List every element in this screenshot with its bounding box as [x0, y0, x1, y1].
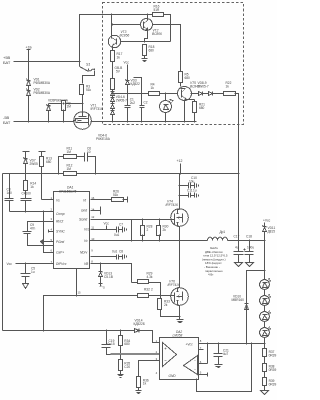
pin1 stub — [153, 342, 160, 344]
wire drain up to SW node — [179, 241, 181, 288]
ground below R18 — [144, 56, 146, 59]
svg-text:100: 100 — [26, 192, 32, 196]
resistor R3 — [80, 85, 84, 95]
svg-text:1k: 1k — [30, 185, 34, 189]
diode stack VD4-6 — [112, 90, 114, 92]
R11 + C6 branch — [59, 157, 64, 174]
wire VT2 emitter to R18 — [145, 30, 148, 42]
LED HL5 — [264, 322, 266, 328]
svg-text:Vcc: Vcc — [84, 228, 90, 232]
capacitor C6 — [85, 153, 88, 162]
resistor R35 — [120, 355, 122, 360]
svg-text:C2: C2 — [144, 101, 148, 105]
svg-text:Gnd: Gnd — [81, 209, 87, 213]
svg-text:1M: 1M — [67, 150, 72, 154]
svg-text:51k: 51k — [86, 88, 92, 92]
wire -5V battery rail — [14, 121, 197, 123]
pin4 stub — [49, 230, 54, 233]
svg-text:10: 10 — [87, 150, 91, 154]
resistor R16 — [153, 13, 164, 17]
resistor R13 — [41, 152, 43, 157]
capacitor C18 — [249, 240, 251, 242]
svg-text:MBR160: MBR160 — [232, 298, 245, 302]
svg-text:0u1: 0u1 — [114, 233, 120, 237]
ground under VT5 source — [177, 320, 184, 323]
svg-text:4u: 4u — [235, 245, 239, 249]
svg-text:1u0: 1u0 — [7, 191, 13, 195]
wire R16 to base rail — [164, 15, 171, 42]
op-amp/PWM IC DA1 box — [54, 192, 90, 269]
gate resistor R28 — [142, 220, 144, 226]
svg-text:4 Вт: 4 Вт — [208, 273, 214, 277]
resistor R34 — [120, 330, 122, 332]
svg-text:0R39: 0R39 — [269, 353, 277, 357]
wire bypass branch — [247, 271, 265, 344]
label +12 flag — [177, 159, 183, 163]
pin5 stub with tick — [199, 373, 208, 377]
ground under sense chain — [264, 386, 266, 391]
capacitor C21 — [218, 343, 220, 345]
zener VD2 — [28, 86, 30, 91]
svg-text:КР1156ЕУ5: КР1156ЕУ5 — [59, 189, 77, 193]
svg-text:2k: 2k — [163, 228, 167, 232]
wire left frame vertical — [2, 174, 4, 331]
svg-text:Д815: Д815 — [268, 230, 276, 234]
svg-text:51R: 51R — [154, 8, 161, 12]
svg-text:+1Б: +1Б — [26, 46, 33, 50]
Vcc flag row with capacitor C7 — [91, 229, 117, 231]
svg-text:0u15: 0u15 — [108, 342, 115, 346]
resistor R14 — [25, 174, 27, 181]
pin7 wire with Vcc net label — [16, 263, 54, 265]
svg-text:1u: 1u — [31, 270, 35, 274]
pin14 stub with bar — [91, 207, 101, 215]
LED HL4 — [264, 306, 266, 312]
flag terminator under VD13 — [99, 284, 103, 287]
pin6 wire up to comp node — [44, 212, 54, 253]
node +BAT junction — [28, 61, 30, 63]
pin numbers — [156, 339, 202, 375]
IC left pin labels — [56, 198, 67, 266]
capacitor C8 row — [91, 256, 117, 258]
pin8 wire VB row — [91, 264, 132, 283]
resistor R2 — [63, 101, 65, 104]
svg-text:C18: C18 — [246, 235, 252, 239]
diode VD10 bypass — [245, 304, 249, 310]
node +1B flag — [28, 50, 30, 62]
svg-text:+Vcc: +Vcc — [186, 343, 194, 347]
svg-text:IRF7316: IRF7316 — [91, 107, 103, 111]
pin7 stub — [199, 349, 204, 351]
resistor R36 — [137, 377, 141, 388]
wire VT3 base rail — [121, 41, 171, 43]
resistor R12 in rail — [64, 172, 77, 176]
svg-text:2W05-7: 2W05-7 — [198, 85, 209, 89]
zener VD5 — [47, 104, 51, 107]
svg-text:C8: C8 — [119, 250, 123, 254]
capacitor C3 — [9, 174, 11, 199]
resistor R5 — [179, 72, 183, 83]
resistor R6 — [194, 100, 196, 102]
svg-text:IRF7416: IRF7416 — [166, 203, 178, 207]
mosfet VT4 — [166, 200, 178, 208]
svg-text:Vs: Vs — [56, 198, 60, 202]
svg-text:BC856: BC856 — [120, 34, 130, 38]
capacitor C5 — [25, 264, 27, 274]
svg-text:БАТ: БАТ — [3, 120, 11, 125]
svg-text:BC806: BC806 — [152, 32, 162, 36]
svg-text:C5.1B: C5.1B — [104, 275, 113, 279]
svg-text:P6SMB30A: P6SMB30A — [34, 91, 51, 95]
ground return loop — [197, 344, 252, 392]
wire VT2 right to R5 column — [153, 25, 181, 72]
resistor R4 — [149, 92, 160, 96]
svg-text:1u: 1u — [193, 189, 197, 193]
+Vcc label inside — [186, 343, 194, 347]
svg-text:680: 680 — [149, 49, 155, 53]
svg-text:R32: R32 — [144, 288, 150, 292]
wire VT2 base to VT3 — [113, 24, 141, 26]
wire +12 rail — [3, 173, 239, 175]
gate resistor R30 — [159, 220, 161, 226]
svg-text:10: 10 — [91, 237, 95, 241]
svg-text:15: 15 — [78, 291, 82, 295]
zener VD11 to +V flag — [263, 219, 271, 223]
ground arrow under C5 — [23, 284, 29, 289]
label GB battery — [115, 66, 123, 74]
label -5B BAT — [3, 115, 11, 125]
inductor L1 — [220, 230, 226, 234]
op-amp A triangle — [163, 343, 177, 367]
svg-text:1k: 1k — [143, 382, 147, 386]
op-amp B triangle — [184, 356, 198, 375]
ground under R35 — [118, 375, 124, 378]
svg-text:Др1: Др1 — [220, 230, 226, 234]
svg-text:1k: 1k — [226, 85, 230, 89]
zener VD13 — [100, 264, 102, 272]
svg-text:0R39: 0R39 — [269, 382, 277, 386]
resistor R32 in gate line — [138, 294, 149, 298]
svg-text:1M: 1M — [67, 105, 72, 109]
svg-text:С20: С20 — [124, 365, 130, 369]
svg-text:G: G — [103, 286, 105, 290]
label +5B BAT — [3, 55, 11, 65]
zener VD7 — [25, 152, 27, 159]
svg-text:2k: 2k — [164, 303, 168, 307]
svg-text:P6SMB30A: P6SMB30A — [34, 81, 51, 85]
pin3 wire to R36 — [139, 361, 160, 377]
pin1 wire from R13 — [42, 199, 54, 201]
svg-text:4.3k: 4.3k — [147, 275, 153, 279]
pin5 arrow terminator — [44, 241, 54, 243]
mosfet VT1 — [74, 112, 92, 130]
resistor R22 — [213, 93, 224, 95]
svg-text:Vt: Vt — [83, 198, 86, 202]
svg-text:+Vcc: +Vcc — [263, 219, 271, 223]
svg-text:C17: C17 — [234, 235, 240, 239]
capacitor C4 — [25, 191, 27, 199]
svg-text:GND: GND — [169, 374, 177, 378]
wire output LED column — [264, 223, 266, 280]
IC bottom pin stub — [76, 269, 78, 296]
dashed enclosure box — [103, 3, 244, 125]
svg-text:2W05: 2W05 — [30, 162, 39, 166]
transistor VT3 — [111, 15, 113, 36]
svg-text:2: 2 — [151, 288, 153, 292]
svg-text:680: 680 — [46, 160, 52, 164]
capacitor C17 — [238, 241, 240, 252]
resistor R18 — [143, 45, 147, 56]
svg-text:Vcc: Vcc — [7, 262, 13, 266]
svg-text:LM358: LM358 — [173, 334, 183, 338]
wire LED column top — [264, 241, 266, 280]
capacitor C10 to side ground — [180, 185, 189, 187]
wire up-left feed into dashed box — [80, 15, 153, 62]
feedback wire to op-amp (thick) — [111, 353, 163, 355]
coil note text — [202, 246, 228, 277]
wire gate feed from bottom-left — [44, 296, 138, 331]
svg-text:0R39: 0R39 — [269, 368, 277, 372]
pin number ticks — [51, 196, 95, 264]
svg-text:Vc: Vc — [84, 239, 88, 243]
svg-text:DiPVcc: DiPVcc — [56, 262, 67, 266]
mosfet VT5 — [168, 280, 180, 288]
wire comp node — [10, 211, 54, 213]
wire gate drive row to VT4 — [91, 219, 171, 221]
svg-text:10u: 10u — [189, 179, 195, 183]
wire link down to SW row — [131, 220, 133, 241]
wire bottom rail — [3, 331, 160, 343]
svg-text:C11: C11 — [187, 189, 193, 193]
label +1B flag — [26, 46, 33, 50]
resistor R33 — [160, 296, 162, 299]
svg-text:CaP+: CaP+ — [56, 251, 64, 255]
Vcc flag and zener VD3 — [124, 61, 130, 65]
wire gate row — [49, 103, 83, 105]
svg-text:S1: S1 — [86, 63, 90, 67]
svg-text:680: 680 — [124, 342, 130, 346]
wire drain feed from +12 rail — [179, 174, 181, 210]
svg-text:P6KE15A: P6KE15A — [96, 137, 111, 141]
svg-text:680: 680 — [185, 76, 191, 80]
transistor VT2 — [141, 19, 153, 31]
svg-text:C7: C7 — [119, 223, 123, 227]
pin3 wire + cap C9 — [28, 222, 54, 232]
LED HL3 — [264, 290, 266, 296]
svg-text:Vcc: Vcc — [104, 222, 110, 226]
sense resistor R37 — [263, 349, 267, 357]
svg-text:2u2: 2u2 — [130, 101, 136, 105]
svg-text:51k: 51k — [113, 193, 119, 197]
svg-text:100u: 100u — [247, 246, 254, 250]
svg-text:БАТ: БАТ — [3, 60, 11, 65]
link pin8 to pin6 — [199, 344, 208, 364]
diode VD8 — [203, 93, 209, 95]
LED HL2 — [260, 280, 270, 290]
capacitor C19 — [106, 330, 108, 332]
transistor VT6 BC846 — [178, 87, 192, 101]
svg-text:1k: 1k — [117, 56, 121, 60]
resistor R17 — [112, 48, 114, 51]
label VD stack note — [96, 134, 111, 142]
diode VD12 in bottom rail — [135, 329, 142, 333]
capacitor C1 — [127, 85, 129, 106]
svg-text:0u1: 0u1 — [112, 250, 118, 254]
svg-text:1k: 1k — [151, 86, 155, 90]
svg-text:2W05-7: 2W05-7 — [116, 99, 127, 103]
svg-text:SYNC: SYNC — [56, 230, 66, 234]
GND label inside — [169, 374, 177, 378]
svg-text:КД522Б: КД522Б — [134, 322, 145, 326]
sense resistor R38 — [264, 357, 266, 364]
wire R22 down to +12 rail — [235, 94, 239, 241]
svg-text:4u7: 4u7 — [223, 352, 229, 356]
bar tap feeding zener VD7 — [23, 151, 30, 153]
diode VD7 — [191, 93, 199, 95]
svg-text:1M: 1M — [67, 167, 72, 171]
svg-text:Rt/Ct: Rt/Ct — [56, 219, 63, 223]
wire SW node row — [90, 240, 208, 242]
switch S1 — [79, 62, 81, 67]
svg-text:PGnd: PGnd — [56, 240, 64, 244]
svg-text:47n: 47n — [30, 227, 36, 231]
sense resistor R39 — [264, 372, 266, 378]
svg-text:SGnd: SGnd — [79, 217, 87, 221]
wire +5V battery rail — [14, 61, 80, 63]
svg-text:IRF7416: IRF7416 — [168, 283, 180, 287]
pin16 wire + resistor R26 — [91, 199, 112, 201]
svg-text:12: 12 — [91, 215, 95, 219]
resistor R29 — [132, 282, 138, 284]
svg-text:2: 2 — [147, 228, 149, 232]
wire source down to ground — [179, 306, 181, 320]
svg-text:NDrv: NDrv — [80, 251, 88, 255]
svg-text:Comp: Comp — [56, 212, 65, 216]
capacitor C11 to side ground — [180, 195, 189, 197]
bar tap feeding R13 — [39, 151, 46, 153]
zener VD1 — [28, 62, 30, 81]
pin8 wire to LED sense node — [199, 343, 265, 345]
svg-text:КД522: КД522 — [131, 82, 141, 86]
IC right pin labels — [79, 198, 90, 266]
svg-text:680: 680 — [199, 106, 205, 110]
LED HL1 — [165, 94, 167, 101]
resistor R19 — [111, 79, 115, 90]
svg-text:Vcc: Vcc — [124, 61, 130, 65]
ground under R36 — [136, 391, 142, 394]
svg-text:+12: +12 — [177, 159, 183, 163]
capacitor C2 — [134, 78, 142, 106]
